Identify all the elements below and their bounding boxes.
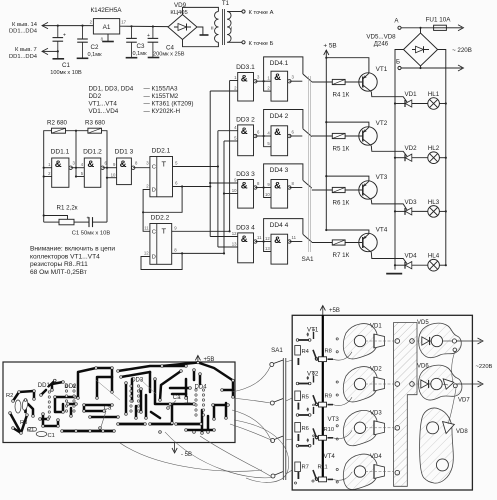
panel transistor VT1 group [295,327,333,366]
transformer T1 [211,0,232,45]
svg-text:DD1...DD4: DD1...DD4 [9,54,38,60]
capacitor C1 100uF electrolytic [50,25,82,77]
wire emitter bus VT4 [325,229,369,233]
svg-text:1: 1 [48,162,51,167]
wire collector VT4 to VD4 gate [371,252,407,264]
logic gate DD4 2 with input loop to switch [264,110,303,156]
PCB -5V arrow [172,443,192,459]
svg-text:— К155ЛА3: — К155ЛА3 [144,86,179,93]
svg-text:резисторы R8..R11: резисторы R8..R11 [30,261,88,268]
wire DD3 3 out to DD4 3 in [255,186,271,188]
bus vertical net Q2 [229,81,231,232]
svg-text:2: 2 [146,184,149,189]
transistor VT2 KT361 [345,120,388,146]
svg-text:VT4: VT4 [324,453,336,460]
svg-text:DD1 3: DD1 3 [115,149,134,156]
svg-text:C4: C4 [166,45,174,52]
cathode rail right [438,50,446,266]
svg-text:R7: R7 [302,465,309,471]
fuse FU1 10A [426,17,464,31]
wire DD3 4 out to DD4 4 in [255,240,271,242]
svg-text:C: C [152,230,156,236]
wire bridge top to transformer [183,7,219,14]
svg-text:VT3: VT3 [376,174,388,181]
svg-text:200мк х 25В: 200мк х 25В [153,52,185,58]
lamp HL2 [428,145,447,163]
svg-text:&: & [241,181,248,192]
svg-text:&: & [274,127,281,138]
svg-text:VD4: VD4 [370,454,382,460]
svg-text:R4: R4 [302,349,310,355]
svg-text:FU1 10А: FU1 10А [426,17,452,24]
svg-text:12: 12 [265,236,270,241]
svg-text:DD1.1: DD1.1 [51,149,70,156]
svg-text:C2: C2 [91,44,99,51]
wire R2 left to DD1.1 inputs (feedback node) [43,131,52,222]
svg-text:9: 9 [234,178,237,183]
transistor VT3 KT361 [345,174,388,200]
svg-text:DD3 4: DD3 4 [236,224,255,231]
rectifier diode VD5 on heatsink [412,320,461,358]
svg-text:3: 3 [292,75,295,80]
logic gate DD3 3 [232,171,260,208]
wire R11 to thyristor gate [333,472,352,480]
svg-text:&: & [241,126,248,137]
svg-text:DD1...DD4: DD1...DD4 [9,29,38,35]
svg-text:~220В: ~220В [476,364,493,370]
logic gate DD3 4 [232,224,262,262]
svg-text:2: 2 [234,86,237,91]
svg-text:DD2: DD2 [64,384,77,390]
wire collector VT1 to VD1 gate [371,92,407,103]
svg-text:D: D [152,188,156,194]
wire DD2.1 Q-bar to decode bus [173,185,212,187]
switch SA1 contact 4 [289,234,312,242]
svg-text:R8: R8 [325,349,332,355]
lamp HL4 [428,253,447,271]
anode rail left [395,50,404,270]
svg-text:+: + [63,33,66,39]
svg-text:~ 220В: ~ 220В [452,47,472,54]
lamp HL1 [428,91,447,109]
svg-text:3: 3 [73,161,76,166]
svg-text:VD5...VD8: VD5...VD8 [366,34,396,41]
wire regulator output to bridge [120,25,168,27]
svg-text:8: 8 [292,181,295,186]
svg-text:68 Ом МЛТ-0,25Вт: 68 Ом МЛТ-0,25Вт [30,269,87,276]
PCB IC pad columns [48,385,205,418]
svg-text:C1: C1 [48,433,55,439]
resistor R1 2.2k [44,205,78,225]
svg-text:&: & [120,159,127,170]
svg-text:&: & [87,159,94,170]
svg-text:DD3.1: DD3.1 [236,64,255,71]
svg-text:А1: А1 [103,24,111,31]
svg-text:4: 4 [234,125,237,130]
svg-text:11: 11 [292,235,297,240]
panel lead pads [294,480,314,484]
svg-text:VD4: VD4 [404,253,417,260]
PCB board outline [3,362,235,443]
svg-text:Внимание: включить в цепи: Внимание: включить в цепи [30,246,115,253]
logic gate DD1.1 [48,149,75,188]
node B mains [396,59,464,72]
svg-text:DD1.2: DD1.2 [83,149,102,156]
thyristor VD3 [394,199,428,215]
resistor R4 1K [312,79,350,98]
rectifier diode VD8 on heatsink [420,408,469,483]
logic gate DD1.2 [81,149,108,188]
svg-text:&: & [241,234,248,245]
svg-text:VT2: VT2 [376,120,388,127]
insulator plate [394,323,417,487]
wire DD1.2 out to DD1.3 in [103,167,117,169]
thyristor VD4 on heatsink [343,454,393,489]
svg-text:Са: Са [173,395,181,401]
switch SA1 contact 2 [289,129,312,137]
wire R3 right to DD1.2 output node [102,131,117,222]
svg-text:R7 1К: R7 1К [333,252,350,259]
svg-text:5: 5 [234,136,237,141]
flip-flop DD2.2 [150,224,172,265]
svg-text:R1: R1 [27,428,34,434]
svg-text:10: 10 [232,188,237,193]
svg-text:6: 6 [257,130,260,135]
svg-text:R6 1К: R6 1К [333,200,350,207]
svg-text:— КУ202К-Н: — КУ202К-Н [144,108,181,115]
svg-text:DD2: DD2 [89,93,102,100]
panel transistor VT2 group [295,371,333,410]
panel transistor VT3 group [295,404,340,441]
svg-text:+ 5В: + 5В [323,43,336,50]
capacitor C5 50uF (timing) [72,216,111,237]
svg-text:1: 1 [267,76,270,81]
switch SA1 coupling [301,76,314,263]
svg-text:DD1, DD3, DD4: DD1, DD3, DD4 [89,86,134,93]
capacitor C3 0.1uF [126,25,147,58]
svg-text:R6: R6 [302,426,309,432]
wire collector VT2 to VD2 gate [371,146,407,157]
svg-text:R1 2,2к: R1 2,2к [57,205,78,212]
svg-text:&: & [274,181,281,192]
svg-text:R9: R9 [325,394,332,400]
PCB labels [6,378,207,440]
wire fan PCB to SA1 [120,367,289,483]
rectifier diodes VD6 VD7 on heatsink [412,364,470,404]
svg-text:К точке А: К точке А [249,10,274,16]
wire DD4 3 pin2 tie [264,188,271,198]
assembly panel outline [292,315,472,490]
svg-text:+5В: +5В [204,357,215,363]
ground C4 [148,57,160,59]
svg-text:100мк х 10В: 100мк х 10В [50,70,82,76]
svg-text:C1: C1 [62,62,70,69]
ground C2 [77,57,89,59]
logic gate DD3 2 [234,116,260,155]
logic gate DD4.1 with input loop to switch [264,57,303,101]
svg-text:VD8: VD8 [456,429,468,435]
svg-text:2: 2 [267,86,270,91]
svg-text:13: 13 [265,246,270,251]
thyristor VD4 [394,253,428,269]
svg-text:2: 2 [48,171,51,176]
svg-text:R3: R3 [20,420,27,426]
wire DD2.2 Q-bar to decode bus [172,252,225,254]
svg-text:10: 10 [111,173,116,178]
svg-text:3: 3 [257,75,260,80]
resistor R5 1K [312,133,350,152]
wire to DD3.3 pin9 [210,182,238,184]
svg-text:&: & [274,72,281,83]
diode bridge VD5..VD8 D246 [366,28,437,68]
thyristor VD1 [394,91,428,107]
bus vertical net Q1 [217,131,219,247]
svg-text:R5: R5 [302,395,309,401]
thyristor VD2 [394,145,428,161]
svg-text:DD2.2: DD2.2 [151,215,170,222]
svg-text:DD4 4: DD4 4 [270,222,289,229]
flip-flop DD2.1 [150,157,173,197]
thyristor VD1 on heatsink [343,324,393,359]
diode bridge VD9 KTs405 [168,2,197,40]
switch SA1 contact 3 [289,180,312,188]
PCB +5V arrow [195,355,214,363]
svg-text:C: C [152,165,156,171]
svg-text:VD3: VD3 [404,199,417,206]
wire DD3.1 out to DD4.1 in [255,80,271,82]
svg-text:4: 4 [267,131,270,136]
svg-text:Т: Т [162,227,167,236]
wire DD4 2 pin2 tie [264,136,271,147]
wire diode chain [448,352,456,424]
svg-text:VD1...VD4: VD1...VD4 [89,108,119,115]
svg-text:R4 1К: R4 1К [333,92,350,99]
svg-text:DD4 2: DD4 2 [270,113,289,120]
svg-text:VD1: VD1 [370,324,382,330]
panel +5V bus [320,306,340,483]
resistor R2 680 [47,120,68,134]
svg-text:Д246: Д246 [374,41,389,48]
PCB trace group DD1 [40,381,76,427]
svg-text:Т1: Т1 [222,0,230,7]
wire to DD3.4 pin12 [210,236,238,238]
wire to DD3.1 pin2 [210,90,238,92]
svg-text:Т: Т [162,160,167,169]
svg-text:13: 13 [232,242,237,247]
transistor VT4 KT361 [345,227,388,253]
svg-text:8: 8 [174,247,177,252]
svg-text:12: 12 [232,231,237,236]
svg-text:R2: R2 [6,393,13,399]
svg-text:8: 8 [257,181,260,186]
svg-text:11: 11 [257,235,262,240]
wire to DD3.3 pin10 [224,193,238,195]
wire collector VT3 to VD3 gate [371,200,407,211]
svg-text:9: 9 [113,162,116,167]
svg-text:HL3: HL3 [428,199,440,206]
wire T1 secondary to point B [227,41,273,47]
ground rail bottom [386,273,402,275]
switch SA1 connector [270,347,286,480]
svg-text:коллекторов VT1...VT4: коллекторов VT1...VT4 [30,253,100,260]
svg-text:R3 680: R3 680 [85,120,106,127]
svg-text:SA1: SA1 [271,347,283,354]
svg-text:DD1: DD1 [38,383,51,389]
wire R2 right / R3 left node to DD1.1 output [66,130,88,178]
svg-text:R5 1К: R5 1К [333,146,350,153]
resistor R6 1K [312,187,350,206]
svg-text:11: 11 [144,225,149,230]
wire DD2.1 D feedback loop [142,185,183,231]
logic gate DD3.1 [234,64,260,101]
node K vyv 7 DD1..DD4 (common) [9,47,58,60]
svg-text:VD1: VD1 [404,91,417,98]
svg-text:DD3 2: DD3 2 [236,116,255,123]
svg-text:DD4 3: DD4 3 [270,167,289,174]
wire VD6 output arrow [456,381,483,387]
svg-text:12: 12 [144,251,149,256]
svg-text:— КТ361 (КТ209): — КТ361 (КТ209) [144,101,194,108]
svg-text:+5В: +5В [329,308,340,314]
logic gate DD4 3 with input loop to switch [264,164,303,208]
panel transistor VT4 group [295,435,336,482]
svg-text:D: D [152,255,156,261]
svg-text:- 5В: - 5В [181,452,192,458]
svg-text:VT3: VT3 [328,416,340,423]
svg-text:VT4: VT4 [376,227,388,234]
wire emitter bus VT1 [325,57,369,73]
svg-text:6: 6 [175,181,178,186]
svg-text:17: 17 [121,20,126,25]
logic gate DD1.3 [111,149,138,185]
svg-text:VD2: VD2 [370,367,382,373]
ground C3 [126,57,138,59]
transistor VT1 KT361 [345,66,388,92]
capacitor C4 200uF electrolytic [147,25,185,57]
svg-text:К142ЕН5А: К142ЕН5А [90,7,122,14]
wire T1 secondary to point A [227,10,273,16]
ground C1 [53,58,65,60]
svg-text:+: + [147,33,150,39]
svg-text:&: & [274,235,281,246]
wire to DD3.4 pin13 [218,246,238,248]
svg-text:9: 9 [267,182,270,187]
wire R8 to thyristor gate [333,352,352,360]
svg-text:VT1...VT4: VT1...VT4 [89,101,118,108]
voltage regulator A1 K142EN5A [90,7,127,42]
svg-text:6: 6 [292,130,295,135]
wires SA1 to panel [286,360,292,474]
svg-text:VD6: VD6 [417,364,429,370]
svg-text:3: 3 [146,161,149,166]
svg-text:0,1мк: 0,1мк [133,51,148,57]
svg-text:4: 4 [81,162,84,167]
wire DD1.1 out to DD1.2 in [71,167,85,169]
wire to DD3.2 pin4 [218,130,238,132]
wire DD1.3 out to DD2.1 C [133,167,150,169]
node K vyv 14 DD1..DD4 (+5V supply output) [9,22,93,35]
PCB part R2 body [15,398,28,413]
warning note [30,246,115,276]
resistor R3 680 [85,120,106,134]
wire emitter bus VT2 [325,121,369,127]
svg-text:R2 680: R2 680 [47,120,68,127]
svg-text:C3: C3 [137,43,145,50]
svg-text:К точке Б: К точке Б [249,41,274,47]
svg-text:II: II [211,26,214,32]
svg-text:5: 5 [81,171,84,176]
svg-text:VD5: VD5 [417,320,429,326]
svg-text:R11: R11 [318,465,328,471]
switch SA1 contact 1 [289,74,312,82]
svg-text:DD4.1: DD4.1 [270,60,289,67]
svg-text:А: А [394,18,399,25]
svg-text:10: 10 [265,192,270,197]
svg-text:8: 8 [135,161,138,166]
wire R9 to thyristor gate [333,397,352,405]
svg-text:&: & [55,159,62,170]
svg-text:2: 2 [90,20,93,25]
wire DD2.2 Q to decode bus [172,230,231,232]
svg-text:0,1мк: 0,1мк [88,52,103,58]
svg-text:КЦ405: КЦ405 [170,10,187,16]
svg-text:9: 9 [174,225,177,230]
wire DD4 4 pin2 tie [264,242,271,252]
svg-text:Са: Са [104,406,112,412]
svg-text:К выв. 7: К выв. 7 [15,47,37,53]
svg-text:— К155ТМ2: — К155ТМ2 [144,93,179,100]
svg-text:VD3: VD3 [370,410,382,416]
logic gate DD4 4 with input loop to switch [264,219,303,265]
wire DD2.1 Q to decode bus [173,165,219,167]
svg-text:VD9: VD9 [174,2,187,9]
svg-text:5: 5 [267,141,270,146]
capacitor C2 0.1uF [77,25,102,59]
wire R10 to thyristor gate [333,430,352,438]
svg-text:DD2.1: DD2.1 [152,148,171,155]
svg-text:5: 5 [175,161,178,166]
wire to DD3.1 pin1 [230,80,238,82]
svg-text:&: & [241,74,248,85]
bus vertical net Q1-bar [209,91,211,237]
PCB trace group DD2 [62,368,118,431]
svg-text:Б: Б [396,59,400,66]
svg-text:SA1: SA1 [301,256,314,263]
svg-text:I: I [231,26,232,32]
svg-text:К выв. 14: К выв. 14 [12,22,38,28]
svg-text:DD4: DD4 [195,385,208,391]
resistor R7 1K [312,240,350,259]
wire emitter bus VT3 [325,175,369,181]
svg-text:R10: R10 [324,427,335,433]
svg-text:DD3: DD3 [131,378,144,384]
PCB trace group DD3 [118,366,186,424]
wire DD4.1 pin2 tie [264,81,271,91]
svg-text:HL4: HL4 [428,253,440,260]
svg-text:VT1: VT1 [376,66,388,73]
ground A1 pin 8 [102,41,114,43]
bus vertical net Q2-bar [223,141,225,253]
thyristor VD3 on heatsink [343,410,393,445]
svg-text:С1 50мк х 10В: С1 50мк х 10В [72,230,111,236]
svg-text:HL1: HL1 [428,91,440,98]
svg-text:1: 1 [234,75,237,80]
svg-text:VD7: VD7 [458,398,470,404]
ground bridge VD9 [197,27,209,35]
parts list [89,86,194,116]
PCB trace group left R2 [10,391,34,433]
wire VD5 output arrow [457,338,484,344]
